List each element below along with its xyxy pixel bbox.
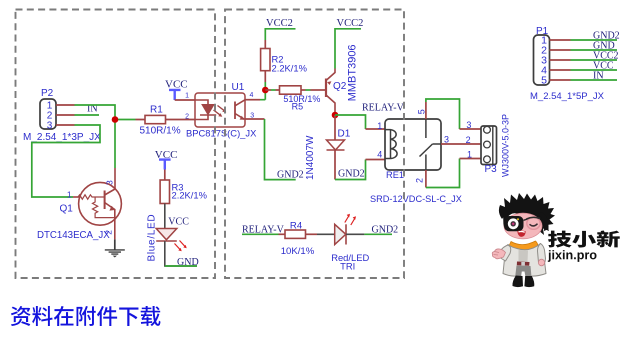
monocle patch: [504, 216, 524, 231]
wire net IN from P2 pin 2: [75, 114, 100, 116]
relay pin 2 wire to P3 pin 1: [425, 170, 427, 188]
junction node at IN/R1/Q1: [112, 116, 119, 123]
P1 pin 3 wire net VCC2: [550, 59, 571, 61]
wire LED to GND: [165, 241, 197, 266]
glasses right lens: [524, 219, 529, 221]
svg-text:VCC2: VCC2: [337, 18, 364, 29]
svg-text:510R/1%: 510R/1%: [140, 126, 181, 137]
svg-text:VCC2: VCC2: [266, 18, 293, 29]
coat left arm: [498, 245, 511, 261]
svg-text:2: 2: [185, 114, 189, 121]
svg-text:1: 1: [467, 150, 472, 160]
svg-text:BPC817S(C)_JX: BPC817S(C)_JX: [186, 127, 257, 138]
resistor R1: [136, 119, 196, 121]
relay pin 5 wire to P3 pin 3: [425, 102, 427, 119]
ground: [114, 239, 116, 249]
transistor Q2 MMBT3906: [325, 79, 327, 98]
U1 pin 1 stub: [175, 99, 195, 101]
svg-text:R4: R4: [290, 220, 303, 231]
mouth: [517, 230, 525, 236]
svg-text:2.2K/1%: 2.2K/1%: [272, 62, 307, 73]
wire VCC2 to R2: [265, 29, 295, 40]
hair fringe: [503, 212, 543, 228]
connector P3 WJ300V-5.0-3P: [481, 126, 497, 165]
svg-text:5: 5: [541, 75, 547, 87]
mascot jixin.pro character: [492, 193, 555, 287]
resistor R4: [279, 233, 286, 235]
svg-text:R1: R1: [150, 105, 163, 116]
svg-text:3: 3: [47, 121, 53, 132]
svg-text:10K/1%: 10K/1%: [281, 246, 315, 257]
transistor Q1 DTC143ECA: [105, 168, 115, 195]
svg-text:TRI: TRI: [340, 261, 355, 272]
module box 1 (input stage): [16, 10, 216, 279]
svg-text:VCC: VCC: [168, 217, 189, 228]
svg-text:2.2K/1%: 2.2K/1%: [172, 190, 207, 201]
svg-text:U1: U1: [232, 82, 245, 93]
svg-text:2: 2: [415, 178, 425, 183]
svg-text:RELAY-V: RELAY-V: [362, 103, 405, 114]
svg-text:M_2.54_1*3P_JX: M_2.54_1*3P_JX: [23, 132, 101, 143]
svg-text:4: 4: [377, 150, 382, 160]
svg-text:RE1: RE1: [386, 170, 404, 180]
svg-text:4: 4: [250, 92, 254, 99]
resistor R5: [265, 89, 271, 91]
P1 pin 4 wire net VCC: [550, 69, 571, 71]
diode D1 1N4007W: [334, 115, 336, 140]
mascot hair: [499, 193, 555, 235]
svg-text:Blue/LED: Blue/LED: [147, 214, 158, 262]
svg-text:3: 3: [444, 134, 449, 144]
P1 pin 5 wire net IN: [550, 79, 571, 81]
svg-text:GND: GND: [177, 257, 199, 268]
note text 资料在附件下载: [11, 306, 31, 326]
coat right arm: [538, 244, 546, 263]
belt: [517, 262, 530, 266]
relay switch: [420, 119, 442, 170]
svg-text:GND2: GND2: [338, 169, 365, 180]
svg-text:Q2: Q2: [333, 81, 347, 92]
svg-text:1: 1: [377, 121, 382, 131]
svg-text:P3: P3: [485, 164, 498, 175]
LED D Blue/LED: [156, 229, 177, 240]
wire U1 pin 3 to GND2: [245, 118, 265, 120]
svg-text:5: 5: [416, 109, 426, 114]
svg-text:IN: IN: [593, 70, 604, 81]
U1 light arrows: [214, 106, 225, 116]
mascot face: [504, 213, 542, 239]
svg-text:1: 1: [67, 189, 72, 199]
pants: [515, 266, 531, 278]
svg-text:M_2.54_1*5P_JX: M_2.54_1*5P_JX: [530, 91, 605, 102]
svg-text:SRD-12VDC-SL-C_JX: SRD-12VDC-SL-C_JX: [370, 194, 462, 204]
resistor R3: [164, 170, 166, 181]
svg-text:1N4007W: 1N4007W: [305, 135, 316, 180]
right fist: [538, 259, 544, 266]
svg-text:GND2: GND2: [277, 169, 304, 180]
svg-text:DTC143ECA_JX: DTC143ECA_JX: [37, 230, 110, 241]
wink eye: [530, 224, 538, 226]
junction node Q2 collector: [332, 112, 339, 119]
P1 pin 1 wire net GND2: [550, 39, 571, 41]
wire P2 pin 3 loop to Q1 base: [32, 125, 100, 197]
coat body: [503, 244, 546, 277]
svg-text:P2: P2: [41, 88, 54, 99]
wire node to U1 pin 4: [260, 90, 265, 100]
wire node to R1: [115, 119, 136, 121]
LED Red/LED TRI: [317, 233, 335, 235]
svg-text:Q1: Q1: [60, 204, 74, 215]
svg-text:GND2: GND2: [372, 224, 399, 235]
wire D1 to GND2 to relay pin 4: [335, 160, 366, 180]
wire RELAY-V node to relay pin 1: [335, 115, 366, 129]
svg-text:WJ300V-5.0-3P: WJ300V-5.0-3P: [501, 114, 511, 177]
logo text jixin.pro: [548, 250, 551, 262]
U1 phototransistor: [234, 102, 236, 120]
scarf: [509, 241, 538, 253]
svg-text:R5: R5: [292, 101, 304, 111]
wire P2 pin 1 to node: [75, 105, 116, 120]
P1 pin 2 wire net GND: [550, 49, 571, 51]
svg-text:3: 3: [466, 120, 471, 130]
inner shirt: [519, 250, 529, 262]
logo text 技小新: [548, 231, 572, 248]
svg-text:2: 2: [466, 135, 471, 145]
wire R3 to LED: [164, 204, 166, 229]
U1 internal LED: [195, 100, 216, 120]
module box 2 (driver stage): [225, 10, 404, 279]
svg-text:1: 1: [185, 92, 189, 99]
resistor R2: [264, 40, 266, 82]
svg-text:D1: D1: [338, 129, 351, 140]
svg-text:MMBT3906: MMBT3906: [346, 44, 358, 101]
svg-text:3: 3: [104, 180, 114, 185]
left hand thumbs-up: [492, 249, 505, 259]
boots: [512, 276, 523, 288]
relay RE1 SRD-12VDC-SL-C: [385, 119, 441, 170]
P2 pin stubs: [56, 105, 75, 125]
wire node down to Q1 collector: [114, 120, 116, 169]
junction node R2/R5/U1: [262, 87, 269, 94]
relay pin 3 wire to P3 pin 2: [441, 143, 481, 145]
